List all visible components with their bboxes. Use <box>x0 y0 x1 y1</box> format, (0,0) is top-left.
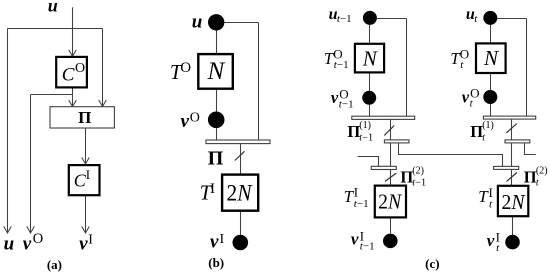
svg-text:(a): (a) <box>47 257 62 272</box>
svg-text:N: N <box>362 46 378 70</box>
svg-text:(c): (c) <box>425 256 439 271</box>
svg-text:Π: Π <box>208 148 224 170</box>
svg-text:2N: 2N <box>227 180 254 205</box>
svg-text:Π: Π <box>78 108 91 127</box>
svg-text:2N: 2N <box>502 190 526 214</box>
svg-text:Π(2)t−1: Π(2)t−1 <box>400 166 426 189</box>
svg-text:u: u <box>192 12 203 33</box>
svg-text:(b): (b) <box>208 255 224 270</box>
svg-text:2N: 2N <box>378 189 402 213</box>
svg-text:u: u <box>4 233 15 254</box>
svg-text:N: N <box>207 58 226 85</box>
svg-text:N: N <box>483 46 499 70</box>
svg-text:u: u <box>48 0 58 16</box>
svg-text:Π(1)t−1: Π(1)t−1 <box>347 120 373 143</box>
